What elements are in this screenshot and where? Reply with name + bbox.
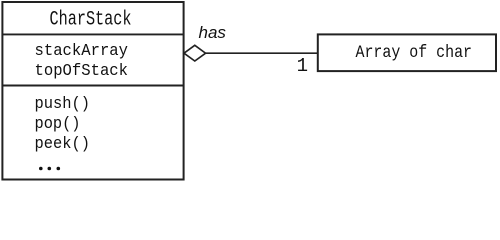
- class box CharStack outline: [2, 2, 183, 180]
- ellipsis dots ...: [39, 167, 60, 171]
- svg-text:has: has: [199, 23, 227, 42]
- svg-text:push(): push(): [35, 95, 91, 114]
- svg-text:topOfStack: topOfStack: [35, 62, 129, 81]
- divider below class name compartment: [2, 33, 183, 35]
- svg-text:1: 1: [297, 55, 308, 77]
- svg-text:stackArray: stackArray: [35, 42, 129, 61]
- svg-text:Array of char: Array of char: [356, 43, 473, 63]
- class box Array of char: [318, 34, 496, 71]
- divider below attributes compartment: [2, 85, 183, 87]
- association wire to Array of char: [206, 52, 318, 54]
- svg-text:pop(): pop(): [35, 115, 81, 134]
- svg-text:peek(): peek(): [35, 135, 91, 154]
- svg-text:CharStack: CharStack: [50, 9, 132, 32]
- aggregation diamond: [184, 45, 206, 61]
